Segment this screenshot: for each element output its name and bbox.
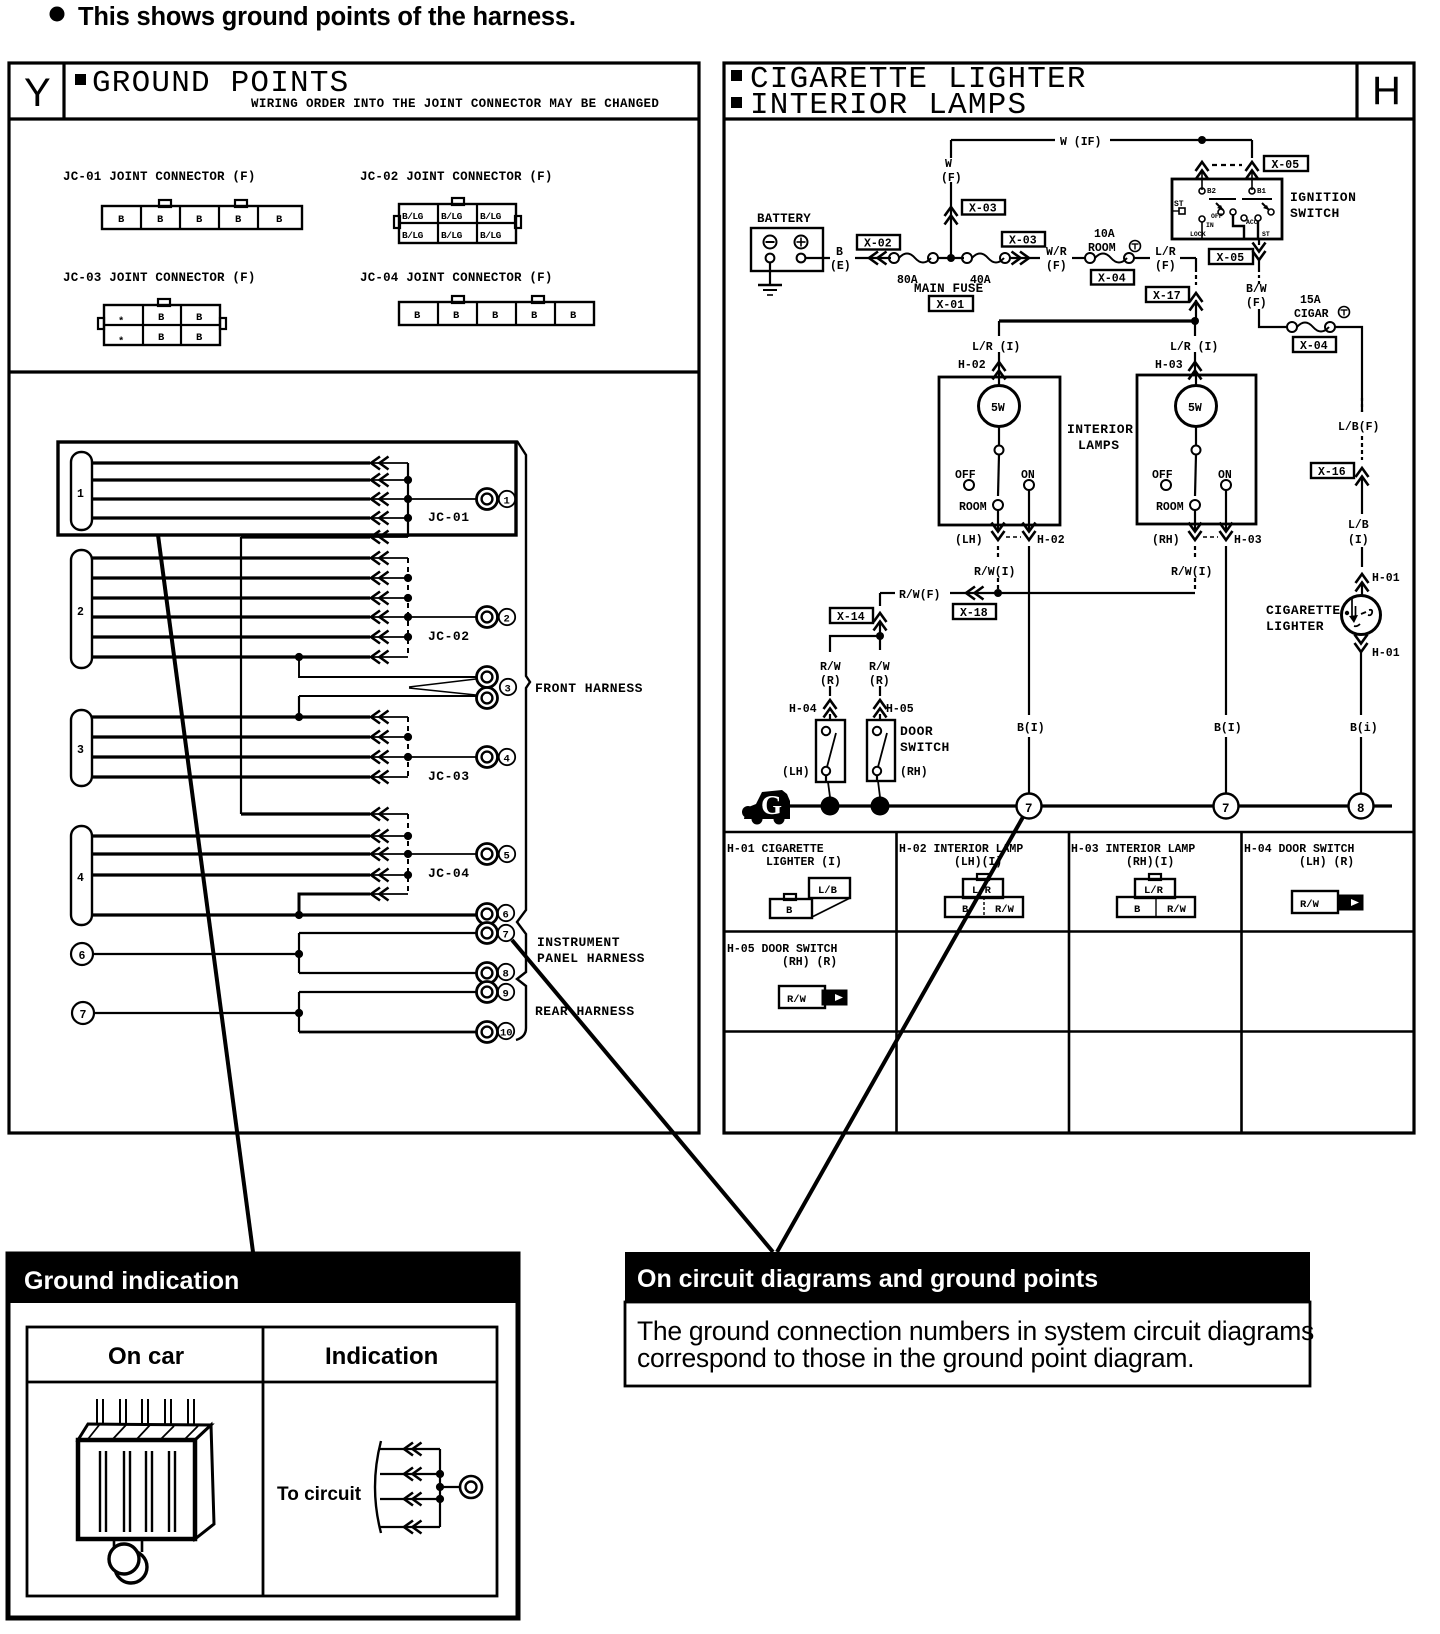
X-01 connector box xyxy=(929,296,973,312)
ground point 8 xyxy=(1349,794,1374,819)
svg-text:L/B: L/B xyxy=(818,885,838,897)
connector H-04 xyxy=(1292,891,1363,913)
svg-text:B: B xyxy=(570,310,577,322)
svg-text:INTERIOR LAMPS: INTERIOR LAMPS xyxy=(750,88,1027,123)
svg-text:H-01: H-01 xyxy=(1372,572,1400,585)
svg-text:(F): (F) xyxy=(1246,297,1267,310)
svg-text:JC-01 JOINT CONNECTOR (F): JC-01 JOINT CONNECTOR (F) xyxy=(63,170,256,184)
junction node xyxy=(938,257,964,259)
svg-text:X-01: X-01 xyxy=(937,299,965,312)
svg-text:X-17: X-17 xyxy=(1153,290,1181,303)
svg-text:R/W(I): R/W(I) xyxy=(1171,566,1212,579)
svg-text:B/W: B/W xyxy=(1246,283,1267,296)
svg-text:R/W(F): R/W(F) xyxy=(899,589,940,602)
svg-text:L/B: L/B xyxy=(1348,519,1369,532)
connector H-01 xyxy=(770,878,850,918)
svg-text:H-03: H-03 xyxy=(1155,359,1183,372)
svg-text:(I): (I) xyxy=(1348,534,1369,547)
svg-text:JC-02: JC-02 xyxy=(428,629,470,644)
JC-04 connector xyxy=(399,296,594,325)
wires on top xyxy=(97,1399,103,1428)
right lamp drop wire xyxy=(1189,321,1202,380)
panel header divider xyxy=(9,117,699,120)
indication symbol xyxy=(375,1441,482,1534)
JC-01 connector xyxy=(102,200,302,229)
B(I) wire left xyxy=(1028,546,1030,794)
svg-text:OFF: OFF xyxy=(1152,469,1173,482)
single connector 6 xyxy=(71,943,93,965)
X-05 arrows into ignition xyxy=(1196,162,1259,190)
X-03 connector box top xyxy=(962,200,1005,216)
JC-03 wires xyxy=(92,711,412,784)
B(I) wire right xyxy=(1225,546,1227,794)
svg-text:(RH) (R): (RH) (R) xyxy=(782,956,837,969)
svg-text:X-02: X-02 xyxy=(864,238,892,251)
connector 2 body xyxy=(71,550,92,668)
lamp feed bus xyxy=(999,317,1199,325)
svg-text:W/R: W/R xyxy=(1046,246,1067,259)
svg-text:CIGARETTE: CIGARETTE xyxy=(1266,603,1341,618)
R/W (I) dashed left xyxy=(997,546,999,593)
ground indication inner table xyxy=(27,1327,497,1596)
connector 1 body xyxy=(71,452,92,530)
ground point 8 xyxy=(477,963,498,984)
svg-text:This shows ground points of th: This shows ground points of the harness. xyxy=(78,3,576,31)
svg-text:IGNITION: IGNITION xyxy=(1290,190,1356,205)
svg-text:ACC: ACC xyxy=(1246,219,1258,226)
svg-text:*: * xyxy=(118,316,124,328)
svg-text:On car: On car xyxy=(108,1343,184,1370)
svg-text:7: 7 xyxy=(503,930,509,942)
lighter feed wire xyxy=(1335,327,1362,412)
svg-text:B: B xyxy=(786,905,793,917)
ground indication box xyxy=(8,1254,518,1618)
svg-text:PANEL HARNESS: PANEL HARNESS xyxy=(537,951,645,966)
svg-text:JC-04: JC-04 xyxy=(428,866,470,881)
door switch RH box xyxy=(867,720,895,781)
X-04 connector box cigar xyxy=(1293,337,1336,353)
header bullet square xyxy=(75,74,86,85)
svg-text:7: 7 xyxy=(80,1009,87,1022)
JC-01 group frame xyxy=(58,442,516,535)
svg-text:10A: 10A xyxy=(1094,228,1115,241)
svg-text:(F): (F) xyxy=(1046,260,1067,273)
svg-text:JC-03: JC-03 xyxy=(428,769,470,784)
svg-text:FRONT HARNESS: FRONT HARNESS xyxy=(535,681,643,696)
svg-text:X-04: X-04 xyxy=(1098,273,1126,286)
interior lamp LH box xyxy=(939,377,1060,525)
svg-text:X-04: X-04 xyxy=(1300,340,1328,353)
ground point 4 xyxy=(408,756,476,758)
harness grouping brace xyxy=(516,441,530,1040)
svg-text:H-03 INTERIOR LAMP: H-03 INTERIOR LAMP xyxy=(1071,843,1195,856)
svg-text:X-03: X-03 xyxy=(969,203,997,216)
svg-text:*: * xyxy=(118,336,124,348)
svg-text:DOOR: DOOR xyxy=(900,724,933,739)
svg-text:H-05 DOOR SWITCH: H-05 DOOR SWITCH xyxy=(727,943,838,956)
top W(IF) line xyxy=(951,136,1252,158)
svg-text:R/W: R/W xyxy=(995,904,1015,916)
svg-text:B: B xyxy=(196,312,203,324)
svg-text:GROUND POINTS: GROUND POINTS xyxy=(92,66,349,101)
svg-text:LIGHTER (I): LIGHTER (I) xyxy=(766,856,842,869)
svg-text:3: 3 xyxy=(77,744,84,757)
svg-text:H-02: H-02 xyxy=(1037,534,1065,547)
svg-text:4: 4 xyxy=(77,872,84,885)
ground dot LH xyxy=(821,797,840,816)
wire to cigar fuse xyxy=(1259,309,1287,327)
svg-text:B/LG: B/LG xyxy=(441,211,463,222)
svg-text:10: 10 xyxy=(500,1028,513,1040)
svg-text:2: 2 xyxy=(504,614,510,626)
ground point 2 xyxy=(408,616,476,618)
header bullet 1 xyxy=(731,70,742,81)
X-18 connector box xyxy=(953,604,996,620)
door switch LH drop xyxy=(824,686,837,720)
ignition switch internals xyxy=(1172,188,1274,239)
svg-text:L/R (I): L/R (I) xyxy=(1170,341,1218,354)
right face xyxy=(195,1425,214,1539)
ground point 5 xyxy=(408,853,476,855)
svg-text:ON: ON xyxy=(1218,469,1232,482)
lighter ground wire xyxy=(1360,652,1362,794)
svg-text:B: B xyxy=(414,310,421,322)
svg-text:1: 1 xyxy=(504,496,510,508)
wire to corner xyxy=(1134,258,1196,321)
X-03 connector box right xyxy=(1002,232,1045,248)
leader line from ground point 7 xyxy=(512,940,773,1252)
room fuse 10A xyxy=(1085,228,1141,263)
svg-text:OFF: OFF xyxy=(1211,213,1223,220)
JC-02 wires xyxy=(92,552,412,664)
svg-text:9: 9 xyxy=(503,989,509,1001)
svg-text:JC-01: JC-01 xyxy=(428,510,470,525)
connector H-02 xyxy=(945,874,1023,917)
interior lamp RH box xyxy=(1137,375,1256,524)
arrows right xyxy=(1010,252,1040,265)
lamp LH switch xyxy=(955,455,1035,526)
svg-text:G: G xyxy=(761,790,782,820)
svg-text:B: B xyxy=(1134,904,1141,916)
on circuit diagrams header xyxy=(625,1252,1310,1303)
wire battery to fuse xyxy=(805,257,830,259)
svg-text:ON: ON xyxy=(1021,469,1035,482)
svg-text:ST: ST xyxy=(1262,231,1270,238)
svg-text:SWITCH: SWITCH xyxy=(900,740,950,755)
svg-text:L/R: L/R xyxy=(972,885,992,897)
R/W (I) dashed right xyxy=(1194,546,1196,592)
svg-text:B/LG: B/LG xyxy=(402,230,424,241)
svg-text:B: B xyxy=(118,214,125,226)
left lamp drop wire xyxy=(993,321,1006,380)
ignition output wire xyxy=(1253,239,1266,284)
main fuse 80A xyxy=(889,253,938,287)
X-05 connector box bottom xyxy=(1209,249,1253,265)
H cell divider xyxy=(1355,63,1358,119)
svg-text:6: 6 xyxy=(503,910,509,922)
ground point 7 xyxy=(477,923,498,944)
svg-text:Y: Y xyxy=(24,71,51,115)
branch to ground 3 upper xyxy=(295,653,476,677)
svg-text:(RH)(I): (RH)(I) xyxy=(1126,856,1174,869)
svg-text:5W: 5W xyxy=(1188,402,1202,415)
leader line to Ground indication xyxy=(158,535,253,1252)
svg-text:H-03: H-03 xyxy=(1234,534,1262,547)
svg-text:B1: B1 xyxy=(1257,188,1267,196)
svg-text:8: 8 xyxy=(503,969,509,981)
svg-text:LAMPS: LAMPS xyxy=(1078,438,1120,453)
svg-text:LOCK: LOCK xyxy=(1190,231,1206,238)
svg-text:3: 3 xyxy=(505,684,511,696)
svg-text:B: B xyxy=(158,332,165,344)
svg-text:B: B xyxy=(453,310,460,322)
single connector 7 xyxy=(72,1002,94,1024)
svg-text:INTERIOR: INTERIOR xyxy=(1067,422,1133,437)
JC-01 bus xyxy=(407,463,409,537)
svg-text:REAR HARNESS: REAR HARNESS xyxy=(535,1004,635,1019)
connector H-05 xyxy=(779,986,847,1008)
JC-03 connector xyxy=(98,299,226,348)
svg-text:(RH): (RH) xyxy=(900,766,928,779)
svg-text:R/W: R/W xyxy=(787,994,807,1006)
wire below JC-01 frame xyxy=(241,531,408,815)
X-04 connector box xyxy=(1091,270,1134,286)
JC-01 wires xyxy=(92,457,412,538)
svg-text:Ground indication: Ground indication xyxy=(24,1267,239,1295)
svg-text:1: 1 xyxy=(77,488,84,501)
svg-text:8: 8 xyxy=(1357,802,1365,816)
left panel frame xyxy=(9,63,699,1133)
svg-text:R/W: R/W xyxy=(1167,904,1187,916)
svg-text:(RH): (RH) xyxy=(1152,534,1180,547)
svg-text:X-16: X-16 xyxy=(1318,466,1346,479)
JC-04 wires xyxy=(92,814,412,894)
cigarette lighter symbol xyxy=(1342,596,1381,635)
connector 4 bottom wire xyxy=(92,911,476,919)
svg-text:H: H xyxy=(1372,69,1401,113)
battery B1 xyxy=(751,228,823,271)
ground dot RH xyxy=(871,797,890,816)
svg-text:15A: 15A xyxy=(1300,294,1321,307)
svg-text:ROOM: ROOM xyxy=(1156,501,1184,514)
lamp RH exits xyxy=(1189,523,1233,541)
svg-text:To circuit: To circuit xyxy=(277,1484,362,1505)
leader line from circled 7 xyxy=(777,817,1023,1252)
svg-text:H-01 CIGARETTE: H-01 CIGARETTE xyxy=(727,843,824,856)
svg-text:ROOM: ROOM xyxy=(1088,242,1116,255)
svg-text:X-03: X-03 xyxy=(1009,235,1037,248)
JC-04 top wire xyxy=(241,808,408,821)
on-car connector drawing xyxy=(78,1399,214,1583)
svg-text:H-04: H-04 xyxy=(789,703,817,716)
svg-text:B: B xyxy=(157,214,164,226)
svg-text:B: B xyxy=(492,310,499,322)
ground bus xyxy=(762,804,1392,807)
svg-text:B: B xyxy=(158,312,165,324)
svg-text:(LH) (R): (LH) (R) xyxy=(1299,856,1354,869)
wire to room fuse xyxy=(1072,257,1086,259)
X-16 connector box xyxy=(1311,463,1354,479)
svg-text:X-14: X-14 xyxy=(837,611,865,624)
svg-text:B/LG: B/LG xyxy=(402,211,424,222)
svg-text:(LH): (LH) xyxy=(782,766,810,779)
ground point 1 xyxy=(408,498,476,500)
door switch LH box xyxy=(816,720,845,782)
main fuse 40A xyxy=(962,253,1010,287)
svg-text:On circuit diagrams and ground: On circuit diagrams and ground points xyxy=(637,1265,1098,1293)
X-14 drop wire xyxy=(830,593,887,652)
svg-text:WIRING ORDER INTO THE JOINT CO: WIRING ORDER INTO THE JOINT CONNECTOR MA… xyxy=(251,97,659,111)
connector 4 body xyxy=(71,826,92,925)
svg-text:B: B xyxy=(531,310,538,322)
svg-text:(LH): (LH) xyxy=(955,534,983,547)
lamp RH switch xyxy=(1152,455,1232,525)
vertical W wire xyxy=(945,140,958,258)
cigar fuse 15A xyxy=(1287,294,1350,332)
svg-text:SWITCH: SWITCH xyxy=(1290,206,1340,221)
front face xyxy=(78,1440,195,1539)
R/W (F) branch wire xyxy=(880,587,1195,600)
X-02 connector box xyxy=(857,235,900,251)
svg-text:B: B xyxy=(276,214,283,226)
ground point 9 xyxy=(477,982,498,1003)
X-05 connector box top xyxy=(1264,156,1308,172)
left section divider xyxy=(9,370,699,373)
panel Y cell divider xyxy=(62,63,65,119)
X-17 connector box xyxy=(1146,287,1203,311)
lamp LH bulb xyxy=(979,377,1020,455)
svg-text:H-04 DOOR SWITCH: H-04 DOOR SWITCH xyxy=(1244,843,1355,856)
svg-text:B/LG: B/LG xyxy=(480,211,502,222)
top bullet xyxy=(50,7,65,22)
battery ground xyxy=(758,262,782,295)
ground point 7 left xyxy=(1017,794,1042,819)
wire to lighter xyxy=(1356,547,1369,595)
svg-text:INSTRUMENT: INSTRUMENT xyxy=(537,935,620,950)
svg-text:(F): (F) xyxy=(1155,260,1176,273)
svg-text:5: 5 xyxy=(504,851,510,863)
svg-text:B2: B2 xyxy=(1207,188,1217,196)
wire from connector 7 xyxy=(94,992,476,1032)
svg-text:JC-03 JOINT CONNECTOR (F): JC-03 JOINT CONNECTOR (F) xyxy=(63,271,256,285)
svg-text:(F): (F) xyxy=(941,172,962,185)
svg-text:4: 4 xyxy=(504,754,510,766)
svg-text:B: B xyxy=(235,214,242,226)
H-01 label bottom xyxy=(1355,635,1400,661)
svg-text:L/B(F): L/B(F) xyxy=(1338,421,1379,434)
svg-text:LIGHTER: LIGHTER xyxy=(1266,619,1324,634)
wire to X-16 xyxy=(1356,436,1369,514)
door switch ground stubs xyxy=(828,781,880,797)
arrows toward battery xyxy=(869,252,887,265)
ground point 6 xyxy=(477,904,498,925)
svg-text:7: 7 xyxy=(1222,802,1230,816)
svg-text:5W: 5W xyxy=(991,402,1005,415)
connector table grid xyxy=(724,832,1414,1133)
svg-text:7: 7 xyxy=(1025,802,1033,816)
svg-text:Indication: Indication xyxy=(325,1343,438,1370)
svg-text:X-05: X-05 xyxy=(1272,159,1300,172)
taper wedge xyxy=(409,679,476,695)
svg-text:IN: IN xyxy=(1206,222,1214,229)
svg-text:W (IF): W (IF) xyxy=(1060,136,1101,149)
svg-text:L/R: L/R xyxy=(1144,885,1164,897)
svg-text:L/R (I): L/R (I) xyxy=(972,341,1020,354)
svg-text:R/W: R/W xyxy=(820,661,841,674)
svg-text:H-02 INTERIOR LAMP: H-02 INTERIOR LAMP xyxy=(899,843,1023,856)
svg-text:B: B xyxy=(836,246,843,259)
ground car icon xyxy=(742,790,790,825)
on circuit diagrams box xyxy=(625,1302,1310,1386)
svg-text:(LH)(I): (LH)(I) xyxy=(954,856,1002,869)
svg-text:B(I): B(I) xyxy=(1214,722,1242,735)
svg-text:B(I): B(I) xyxy=(1017,722,1045,735)
svg-text:B(i): B(i) xyxy=(1350,722,1378,735)
svg-text:JC-02 JOINT CONNECTOR (F): JC-02 JOINT CONNECTOR (F) xyxy=(360,170,553,184)
right header divider xyxy=(724,117,1414,120)
branch to ground 3 lower xyxy=(299,696,476,717)
front face wires xyxy=(100,1451,106,1532)
svg-text:MAIN FUSE: MAIN FUSE xyxy=(914,282,983,296)
svg-text:JC-04 JOINT CONNECTOR (F): JC-04 JOINT CONNECTOR (F) xyxy=(360,271,553,285)
svg-text:6: 6 xyxy=(79,950,86,963)
connector H-03 xyxy=(1117,874,1195,917)
lamp RH bulb xyxy=(1176,375,1217,455)
svg-text:B/LG: B/LG xyxy=(441,230,463,241)
svg-text:OFF: OFF xyxy=(955,469,976,482)
X-14 connector box xyxy=(830,608,873,624)
svg-text:R/W: R/W xyxy=(869,661,890,674)
svg-text:B: B xyxy=(196,332,203,344)
svg-text:correspond to those in the gro: correspond to those in the ground point … xyxy=(637,1343,1194,1373)
svg-text:2: 2 xyxy=(77,606,84,619)
ground pair 3 xyxy=(477,667,498,688)
svg-text:H-01: H-01 xyxy=(1372,647,1400,660)
lamp LH exits xyxy=(992,523,1036,541)
wire from connector 6 xyxy=(93,933,476,973)
ground point 7 right xyxy=(1214,794,1239,819)
wire xyxy=(855,257,891,259)
svg-text:(E): (E) xyxy=(830,260,851,273)
svg-text:R/W: R/W xyxy=(1300,899,1320,911)
connector 3 body xyxy=(71,710,92,786)
svg-text:B: B xyxy=(962,904,969,916)
header bullet 2 xyxy=(731,97,742,108)
ignition switch box xyxy=(1172,179,1282,239)
svg-text:B/LG: B/LG xyxy=(480,230,502,241)
svg-text:CIGAR: CIGAR xyxy=(1294,308,1329,321)
ground point 10 xyxy=(477,1022,498,1043)
svg-text:X-18: X-18 xyxy=(960,607,988,620)
svg-text:L/R: L/R xyxy=(1155,246,1176,259)
svg-text:X-05: X-05 xyxy=(1217,252,1245,265)
JC-02 connector xyxy=(394,198,521,243)
bottom plug xyxy=(114,1539,142,1552)
door switch RH drop xyxy=(874,686,887,720)
top face xyxy=(78,1424,211,1440)
svg-text:H-02: H-02 xyxy=(958,359,986,372)
svg-text:R/W(I): R/W(I) xyxy=(974,566,1015,579)
ground indication header xyxy=(6,1252,520,1303)
svg-text:W: W xyxy=(945,158,952,171)
svg-text:H-05: H-05 xyxy=(886,703,914,716)
svg-text:The ground connection numbers: The ground connection numbers in system … xyxy=(637,1316,1314,1346)
svg-text:BATTERY: BATTERY xyxy=(757,212,811,226)
right panel frame xyxy=(724,63,1414,1133)
svg-text:ROOM: ROOM xyxy=(959,501,987,514)
JC-04 lower branch wire xyxy=(299,888,408,916)
svg-text:B: B xyxy=(196,214,203,226)
